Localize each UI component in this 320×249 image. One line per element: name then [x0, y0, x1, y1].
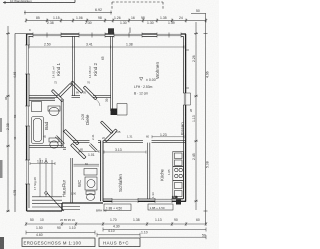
- dimension texts left chain: [4, 28, 31, 196]
- window top Wohnen2: [157, 33, 181, 37]
- kitchen door threshold black: [176, 200, 181, 205]
- cistern WC: [84, 169, 97, 176]
- window top Kind1: [33, 33, 61, 37]
- interior wall Bad right: [61, 99, 63, 147]
- door leaf Schlafen: [105, 129, 118, 142]
- title bar: [22, 238, 140, 247]
- wire left dim chain: [6, 26, 10, 212]
- slash ticks top chain: [25, 19, 207, 22]
- door arc Kind2: [96, 100, 100, 107]
- wire top dim chain C: [26, 19, 206, 23]
- dim line rooms top: [29, 46, 184, 49]
- kitchen counter sink: [173, 152, 184, 167]
- door leaf WC: [89, 144, 97, 152]
- interior wall Kueche top: [152, 141, 186, 143]
- kitchen stove: [173, 167, 184, 181]
- paper noise overlay: [0, 0, 219, 249]
- exterior wall right: [185, 34, 187, 202]
- exterior wall top: [26, 33, 186, 35]
- window left HausFlur: [25, 160, 30, 184]
- elevation box Kueche: [148, 204, 173, 210]
- door leaf Kind1: [59, 84, 72, 97]
- window left Kind1: [25, 45, 30, 74]
- bathtub: [32, 117, 44, 144]
- interior wall HausFlur top stub: [63, 147, 66, 149]
- door leaf entry 1: [64, 130, 79, 145]
- window right Essen with sill bump: [183, 93, 188, 105]
- scan artifacts left edge: [0, 118, 4, 249]
- pillar at wall junction top: [108, 28, 114, 34]
- slash ticks bottom chain: [25, 223, 207, 226]
- kitchen unit: [173, 181, 184, 199]
- toilet Bad: [49, 138, 59, 142]
- washing machine Bad: [32, 102, 42, 112]
- door leaf Kind2: [83, 86, 97, 100]
- dim line Hausflur: [30, 162, 55, 165]
- washbasin WC: [85, 177, 97, 190]
- washbasin Bad: [48, 106, 60, 111]
- bottom dim chain: [26, 222, 206, 239]
- balcony edge line left: [15, 34, 26, 213]
- stair walkline circle: [45, 192, 48, 195]
- window top Kind2: [79, 33, 105, 37]
- dim line Diele small: [79, 150, 99, 153]
- dimension texts right chain: [192, 55, 210, 168]
- window bottom Schlafen: [112, 199, 138, 203]
- interior wall HausFlur right: [71, 158, 73, 203]
- slash ticks right chain: [195, 32, 197, 202]
- wire top dim line B 6.92: [24, 11, 112, 15]
- exterior wall left: [26, 34, 28, 211]
- interior wall Schlafen/Kueche: [148, 143, 150, 199]
- window bottom Kueche: [155, 199, 172, 203]
- wall ticks right: [186, 50, 189, 88]
- window top Wohnen1: [114, 33, 142, 37]
- dimension texts top: [10, 0, 200, 25]
- interior wall Wohnen left: [111, 36, 113, 111]
- stair steps: [32, 197, 62, 207]
- door stub entry: [55, 136, 64, 145]
- room labels: [44, 62, 185, 198]
- windows: white gaps + sash lines + ticks: [25, 33, 191, 204]
- stair walk arrow: [44, 160, 47, 163]
- WC shelf line: [74, 164, 100, 166]
- door leaf chevron right: [71, 81, 83, 93]
- floor level mark Wohnen: [134, 78, 156, 96]
- slash ticks left chain: [7, 32, 9, 212]
- door leaf entry 2: [71, 144, 86, 159]
- entry steps below: [62, 207, 80, 210]
- dimension texts interior: [33, 43, 193, 213]
- interior wall Bad bottom: [29, 145, 63, 147]
- wire right dim chain inner: [194, 22, 198, 210]
- dashed overhang rectangle: [112, 2, 163, 10]
- window mid tick: [129, 28, 131, 34]
- wire top dim line A: [3, 0, 75, 4]
- wire right dim chain outer: [191, 13, 208, 224]
- stair cut diagonal: [47, 193, 64, 211]
- interior dimension lines: [29, 46, 184, 166]
- dim line Kueche: [152, 135, 184, 138]
- interior wall Kind1/Kind2: [73, 36, 75, 96]
- interior wall WC right thick: [101, 141, 103, 202]
- chimney block: [111, 109, 118, 116]
- shelf rect next to chimney: [117, 104, 127, 116]
- elevation box Schlafen: [104, 204, 131, 211]
- dim line Schlafen: [104, 151, 146, 154]
- stairs bottom-left: [32, 158, 64, 211]
- window left Bad: [25, 106, 30, 126]
- interior wall Bad top: [29, 99, 55, 101]
- interior wall Diele/Schlafen: [103, 141, 143, 143]
- exterior wall bottom: [103, 200, 186, 202]
- interior wall WC top: [73, 141, 101, 143]
- door leaf Bad: [52, 90, 64, 102]
- toilet WC: [86, 191, 95, 195]
- interior wall rooms bottom (Diele top): [29, 95, 111, 97]
- door leaf Wohnen: [101, 121, 114, 134]
- stair flight lines: [40, 158, 52, 197]
